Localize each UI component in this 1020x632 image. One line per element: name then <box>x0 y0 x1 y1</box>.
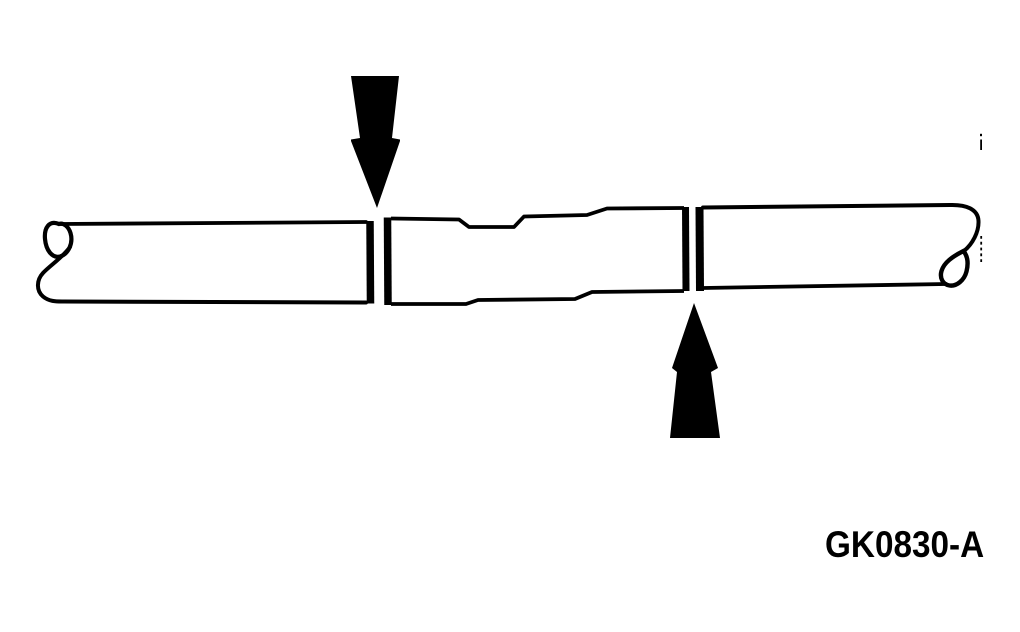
stray ink mark (letter i bleed-through) <box>980 134 982 136</box>
shaft left tube broken-end tail + bottom edge <box>38 247 366 303</box>
shaft right tube top edge with rounded end <box>703 205 979 251</box>
shaft right tube bottom edge <box>703 284 946 288</box>
alignment mark right band line 1 <box>682 207 690 291</box>
shaft middle section bottom edge with steps <box>391 291 684 304</box>
shaft middle section top edge with notch <box>391 208 684 227</box>
arrow (up, pointing at right alignment mark) <box>670 303 720 438</box>
figure label GK0830-A <box>825 524 984 566</box>
shaft left tube top edge <box>60 222 366 224</box>
dotted fold line right edge <box>980 236 982 264</box>
alignment mark left band line 1 <box>366 221 374 304</box>
alignment mark right band line 2 <box>696 207 705 291</box>
shaft left tube broken-end curl <box>45 223 72 257</box>
arrow (down, pointing at left alignment mark) <box>351 76 400 208</box>
shaft right tube broken-end curl <box>941 251 968 286</box>
alignment mark left band line 2 <box>384 218 392 306</box>
